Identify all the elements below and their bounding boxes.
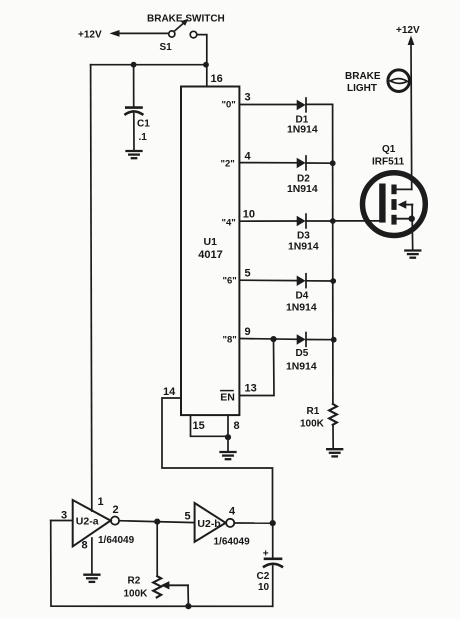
wire D5 to rail	[306, 339, 334, 341]
svg-text:1/64049: 1/64049	[214, 537, 251, 548]
ground (R1)	[327, 449, 342, 456]
junction D2/rail	[330, 160, 336, 166]
svg-text:D3: D3	[297, 231, 310, 242]
diode D2	[297, 158, 306, 169]
svg-text:1N914: 1N914	[288, 242, 319, 253]
svg-text:3: 3	[245, 92, 251, 104]
wire pin5 to D4	[239, 279, 297, 281]
svg-text:100K: 100K	[300, 419, 325, 430]
wire R2 top stub	[156, 522, 158, 577]
wire left feedback rail	[51, 521, 273, 607]
svg-text:"6": "6"	[223, 276, 237, 287]
pin 13 EN wire	[239, 339, 274, 395]
svg-text:R1: R1	[307, 406, 320, 417]
junction at S1/pin16	[203, 62, 209, 68]
wire pin4 to D2	[239, 162, 297, 164]
Q1 body arrow	[405, 204, 413, 206]
svg-text:5: 5	[245, 267, 251, 279]
ground (Q1)	[405, 251, 420, 258]
svg-text:1/64049: 1/64049	[98, 535, 135, 546]
svg-text:5: 5	[185, 511, 191, 523]
wire pin10 to D3	[239, 220, 297, 222]
diode D4	[297, 276, 306, 287]
wire diode bus rail	[332, 104, 334, 404]
svg-text:C1: C1	[137, 119, 150, 130]
junction R2 top tap	[154, 519, 160, 525]
svg-text:"0": "0"	[222, 99, 236, 110]
Q1 channel bars	[391, 185, 396, 195]
svg-text:8: 8	[82, 540, 88, 552]
wire U2-a pin8 to ground	[91, 538, 93, 575]
svg-text:13: 13	[245, 382, 257, 394]
wire R2 wiper to bottom rail	[187, 585, 189, 606]
svg-text:14: 14	[163, 386, 176, 398]
svg-text:4: 4	[245, 151, 252, 163]
svg-text:Q1: Q1	[382, 144, 396, 155]
wire D3 to rail	[306, 220, 333, 222]
lamp BRAKE LIGHT	[388, 70, 410, 92]
wire +12V arrow down to Q1 drain	[408, 36, 415, 46]
wire top horizontal bus	[91, 64, 207, 66]
wire left rail to U2-a pin1	[91, 65, 92, 511]
junction D5/rail	[331, 337, 337, 343]
svg-text:9: 9	[245, 326, 251, 338]
svg-text:100K: 100K	[124, 588, 149, 599]
wire D1 to rail	[306, 103, 333, 105]
Q1 drain tap	[397, 188, 412, 190]
wire S1 to pin16 rail	[197, 35, 207, 87]
diode D1	[297, 100, 306, 111]
svg-text:"4": "4"	[222, 217, 236, 228]
wire C1 stub	[133, 65, 135, 107]
potentiometer R2	[153, 576, 161, 597]
Q1 source tap	[397, 218, 412, 220]
junction pin8/ground	[225, 434, 231, 440]
svg-text:U2-b: U2-b	[197, 518, 220, 530]
diode D5	[297, 334, 306, 345]
svg-text:1N914: 1N914	[286, 362, 317, 373]
svg-text:U2-a: U2-a	[76, 515, 99, 527]
svg-text:D5: D5	[296, 348, 309, 359]
wire pin9 to D5	[239, 338, 297, 341]
junction D4/rail	[330, 278, 336, 284]
svg-text:10: 10	[243, 209, 255, 221]
svg-text:"8": "8"	[223, 334, 237, 345]
svg-text:2: 2	[113, 504, 119, 516]
svg-text:15: 15	[193, 420, 205, 432]
capacitor C1	[126, 106, 141, 109]
inverter U2-a	[73, 500, 111, 546]
svg-text:BRAKE: BRAKE	[345, 71, 381, 82]
wire Q1 source to ground	[411, 219, 414, 251]
ground (C1)	[127, 151, 142, 158]
svg-text:LIGHT: LIGHT	[347, 83, 377, 94]
wire U2-a pin3 input	[51, 520, 73, 522]
svg-text:1N914: 1N914	[287, 125, 318, 136]
svg-text:EN: EN	[220, 391, 235, 403]
pin 15 / pin 8 bracket	[191, 415, 229, 436]
switch S1	[169, 31, 175, 37]
R2 wiper arrow	[168, 584, 189, 586]
svg-text:"2": "2"	[221, 159, 235, 170]
wire D2 to rail	[306, 162, 333, 164]
junction pin9/EN feedback	[270, 336, 276, 342]
wire pin3 to D1	[239, 104, 297, 106]
junction R2 wiper/bottom	[185, 603, 191, 609]
inverter U2-b	[195, 503, 226, 542]
pin 14 clock wire	[162, 398, 273, 523]
svg-text:S1: S1	[160, 42, 173, 53]
svg-text:10: 10	[258, 582, 270, 593]
op IC U1 4017 body	[181, 87, 239, 416]
svg-text:16: 16	[211, 73, 223, 85]
svg-text:U1: U1	[204, 236, 218, 248]
svg-text:1: 1	[98, 496, 104, 508]
svg-text:4: 4	[229, 506, 236, 518]
junction at C1 tap	[131, 62, 137, 68]
svg-text:D4: D4	[296, 290, 309, 301]
wire D4 to rail	[306, 280, 333, 282]
svg-text:C2: C2	[257, 571, 270, 582]
svg-text:D2: D2	[297, 173, 310, 184]
svg-text:+12V: +12V	[78, 30, 102, 41]
resistor R1	[329, 404, 337, 425]
wire U2-a out to U2-b in	[119, 521, 195, 523]
svg-text:IRF511: IRF511	[372, 157, 405, 168]
ground (U1)	[221, 452, 236, 459]
svg-text:3: 3	[61, 509, 67, 521]
wire gate line to Q1	[333, 220, 379, 222]
wire U2-b out to C2	[234, 522, 272, 524]
ground (U2-a)	[84, 575, 99, 582]
svg-text:4017: 4017	[198, 249, 222, 261]
capacitor C2	[272, 523, 274, 558]
svg-text:1N914: 1N914	[287, 184, 318, 195]
svg-text:.1: .1	[139, 132, 148, 143]
junction U2-b out / pin14 / C2	[270, 520, 276, 526]
diode D3	[297, 216, 306, 227]
svg-text:+12V: +12V	[396, 25, 420, 36]
svg-text:R2: R2	[128, 576, 141, 587]
svg-text:8: 8	[234, 420, 240, 432]
wire +12V arrow to S1	[116, 32, 168, 34]
Q1 gate bar	[379, 184, 385, 223]
svg-text:1N914: 1N914	[286, 302, 317, 313]
wire R1 to ground	[332, 425, 334, 449]
junction D3/gate/rail	[330, 218, 336, 224]
